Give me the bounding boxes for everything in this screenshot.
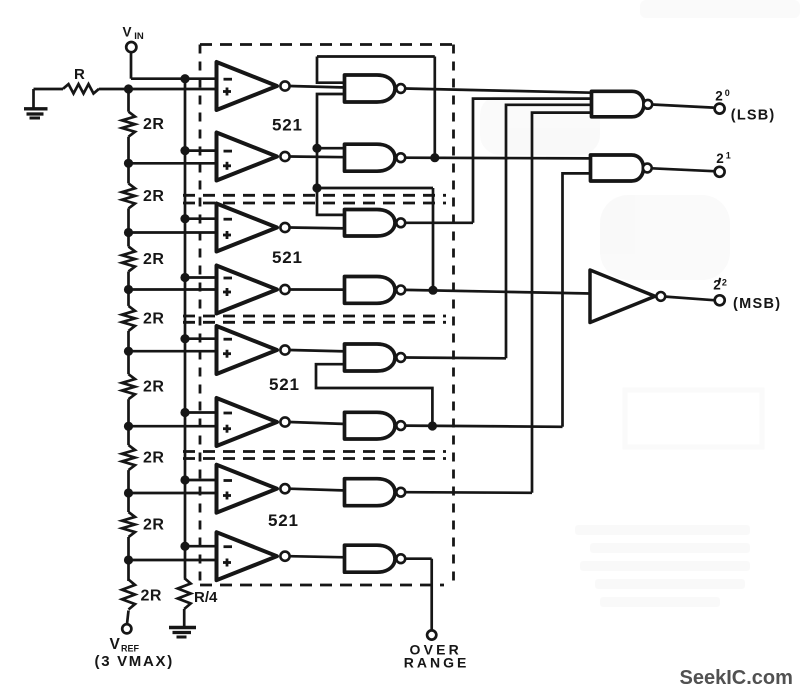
dashed separator 2 upper [183, 315, 446, 318]
wire G6 output right [405, 426, 563, 427]
wire feedback down to G1 input [317, 57, 346, 83]
faint scan artifacts [480, 0, 800, 607]
junction G4 output [428, 286, 437, 295]
ground (R/4) [169, 628, 196, 638]
svg-text:SeekIC.com: SeekIC.com [680, 667, 793, 689]
svg-text:521: 521 [269, 375, 300, 394]
svg-text:(3 VMAX): (3 VMAX) [95, 653, 174, 670]
NAND gate G6 [345, 412, 406, 439]
wire G3 output riser [473, 99, 592, 223]
resistor 2R #4 [122, 306, 135, 331]
svg-text:2R: 2R [143, 251, 164, 268]
svg-text:2: 2 [722, 278, 727, 288]
svg-text:2R: 2R [143, 116, 164, 133]
wire rail to comparator 7 - input [185, 479, 217, 482]
wire comparator U5 output to NAND [290, 350, 346, 351]
junction chain G2 input [312, 144, 321, 153]
wire V_IN down [130, 52, 133, 79]
comparator U1 output bubble [280, 81, 289, 90]
wire tap to comparator 3 + input [129, 231, 218, 234]
terminal V_REF [122, 624, 131, 633]
wire G8 output right [405, 557, 432, 560]
dashed box bottom edge [200, 584, 444, 587]
comparator U4 (521) [217, 266, 278, 314]
wire ladder segment 5b [127, 399, 130, 426]
junction ladder tap 8 [124, 555, 133, 564]
NAND gate G8 [345, 545, 406, 572]
junction ladder tap 2 [124, 159, 133, 168]
resistor R/4 [178, 578, 191, 609]
wire chain horizontal to G4 [317, 187, 433, 190]
wire G2 output feedback up [433, 57, 436, 158]
comparator U7 (521) [217, 465, 278, 513]
ground stub top-left [32, 89, 35, 109]
wire ladder segment 2b [127, 208, 130, 232]
wire G2 output to 2^1 gate [405, 156, 590, 159]
terminal 2^0 (LSB) [715, 104, 725, 114]
svg-text:2R: 2R [141, 588, 162, 605]
comparator U3 (521) [217, 204, 278, 252]
wire 2^0 to terminal [652, 105, 713, 108]
comparator U8 (521) [217, 532, 278, 580]
wire 2^2 to terminal [665, 297, 714, 301]
wire rail to comparator 5 - input [185, 337, 217, 340]
svg-text:521: 521 [272, 116, 303, 135]
wire last 2R to V_REF [127, 611, 129, 625]
wire G1 third input [317, 94, 346, 215]
wire ladder segment 2a [127, 163, 130, 183]
wire rail to comparator 4 - input [185, 276, 217, 279]
wire ladder segment 5a [127, 351, 130, 374]
svg-text:1: 1 [726, 151, 731, 161]
dashed separator 1 lower [183, 202, 446, 205]
wire 2^1 to terminal [652, 168, 714, 171]
wire G6 output riser [563, 173, 592, 426]
wire G4 output to 2^2 buffer [405, 290, 590, 294]
wire tap to comparator 4 + input [129, 288, 218, 291]
comparator U5 (521) [217, 326, 278, 374]
terminal 2^1 [715, 167, 725, 177]
dashed separator 3 lower [183, 457, 446, 460]
wire rail to comparator 3 - input [185, 217, 217, 220]
wire chain down to G4 output [432, 188, 435, 290]
comparator U7 output bubble [280, 484, 289, 493]
wire ladder segment 6b [127, 470, 130, 493]
wire G3 output right [405, 221, 473, 224]
wire ladder segment 1b [127, 137, 130, 164]
comparator U5 output bubble [280, 345, 289, 354]
wire tap to comparator 2 + input [129, 162, 218, 165]
NAND gate 2^0 output [592, 91, 653, 117]
apostrophe artifact above 2^2 [718, 278, 721, 283]
dashed box top edge [200, 43, 454, 46]
comparator U8 output bubble [280, 552, 289, 561]
NAND gate G4 [345, 277, 406, 304]
wire rail to R/4 [183, 546, 187, 578]
svg-text:V: V [123, 25, 132, 40]
wire tap to comparator 6 + input [129, 425, 218, 428]
wire chain stub to G2 input [317, 147, 346, 150]
junction G2 output [430, 153, 439, 162]
NAND gate G7 [345, 479, 406, 506]
junction ladder tap 5 [124, 347, 133, 356]
wire ladder segment 3b [127, 272, 130, 290]
wire G5 output right [405, 356, 506, 359]
junction chain horizontal [312, 183, 321, 192]
node A (ladder top) [124, 84, 133, 93]
terminal OVER RANGE [427, 630, 436, 639]
resistor 2R #7 [122, 512, 135, 537]
wire ladder segment 4a [127, 290, 130, 306]
junction rail row 6 [180, 408, 189, 417]
wire G7 output riser [532, 113, 592, 493]
resistor 2R #5 [122, 374, 135, 399]
wire ladder segment 6a [127, 426, 130, 445]
wire comparator U4 output to NAND [290, 288, 346, 291]
junction G6 output [428, 421, 437, 430]
NAND gate G5 [345, 344, 406, 371]
comparator U1 (521) [217, 62, 278, 110]
comparator U2 (521) [217, 133, 278, 181]
wire ladder segment 3a [127, 233, 130, 247]
svg-text:2R: 2R [143, 310, 164, 327]
junction ladder tap 3 [124, 228, 133, 237]
NAND gate G2 [345, 144, 406, 171]
svg-text:521: 521 [272, 248, 303, 267]
wire tap to comparator 5 + input [129, 350, 218, 353]
resistor R [63, 84, 99, 93]
terminal V_IN [126, 42, 136, 52]
comparator U2 output bubble [280, 152, 289, 161]
wire G5 feedback input [316, 364, 432, 426]
wire tap to comparator 8 + input [129, 559, 218, 562]
wire rail to comparator 2 - input [185, 149, 217, 152]
resistor 2R #1 [122, 112, 135, 137]
ground (input) [24, 109, 48, 118]
resistor 2R #6 [122, 445, 135, 470]
wire comparator U1 output to NAND [290, 86, 346, 88]
NAND gate G1 [345, 75, 406, 102]
svg-text:R: R [74, 66, 85, 83]
svg-text:2R: 2R [143, 517, 164, 534]
wire feedback top horizontal [317, 55, 435, 58]
svg-text:IN: IN [134, 31, 144, 42]
node V_IN rail top [180, 74, 189, 83]
V_IN rail vertical [184, 79, 187, 547]
resistor 2R #8 [122, 580, 135, 610]
svg-text:0: 0 [725, 88, 730, 98]
wire ground to R [34, 88, 64, 91]
svg-text:2R: 2R [143, 379, 164, 396]
resistor 2R #2 [122, 183, 135, 208]
wire ladder to last 2R [127, 560, 130, 581]
wire ladder segment 4b [127, 331, 130, 351]
wire comparator U6 output to NAND [290, 422, 346, 424]
junction rail row 4 [180, 273, 189, 282]
NAND gate 2^1 output [591, 155, 652, 181]
svg-text:(MSB): (MSB) [733, 296, 781, 312]
svg-text:RANGE: RANGE [404, 655, 470, 671]
wire G7 output right [405, 491, 532, 494]
dashed separator 2 lower [183, 321, 446, 324]
svg-text:V: V [110, 636, 121, 653]
wire ladder segment 7b [127, 537, 130, 560]
dashed separator 3 upper [183, 450, 446, 453]
junction rail row 8 [180, 542, 189, 551]
svg-text:REF: REF [121, 644, 140, 654]
resistor 2R #3 [122, 247, 135, 272]
junction ladder tap 6 [124, 422, 133, 431]
wire tap to comparator 7 + input [129, 492, 218, 495]
wire comparator U3 output to NAND [290, 226, 346, 230]
wire G1 output to 2^0 gate [405, 89, 591, 93]
svg-text:R/4: R/4 [194, 589, 218, 606]
wire comparator U7 output to NAND [290, 489, 346, 491]
dashed box left edge [199, 45, 202, 586]
svg-text:2R: 2R [143, 450, 164, 467]
wire rail to comparator 6 - input [185, 411, 217, 414]
junction rail row 5 [180, 334, 189, 343]
comparator U4 output bubble [280, 285, 289, 294]
svg-text:(LSB): (LSB) [731, 108, 776, 124]
svg-text:2: 2 [716, 151, 724, 166]
wire R to node A and comparator 1 + input [99, 88, 217, 91]
wire comparator U2 output to NAND [290, 155, 346, 158]
svg-text:521: 521 [268, 511, 299, 530]
svg-text:2: 2 [715, 88, 723, 103]
NAND gate G3 [345, 210, 406, 237]
terminal 2^2 (MSB) [715, 295, 725, 305]
wire rail to comparator 8 - input [185, 545, 217, 548]
wire G8 output down to over range [430, 559, 433, 631]
wire G5 output riser [506, 105, 592, 358]
junction rail row 2 [180, 146, 189, 155]
wire ladder segment 1a [127, 89, 130, 112]
dashed box right edge [452, 45, 455, 586]
wire comparator U8 output to NAND [290, 556, 346, 557]
junction ladder tap 4 [124, 285, 133, 294]
comparator U6 (521) [217, 398, 278, 446]
wire V_IN to rail and comparator 1 - input [131, 77, 217, 80]
wire ladder segment 7a [127, 493, 130, 512]
svg-text:2R: 2R [143, 188, 164, 205]
dashed separator 1 upper [183, 194, 446, 197]
comparator U6 output bubble [280, 417, 289, 426]
junction rail row 3 [180, 214, 189, 223]
junction ladder tap 7 [124, 488, 133, 497]
wire R/4 to ground [183, 609, 186, 626]
buffer 2^2 (MSB) [590, 270, 665, 323]
comparator U3 output bubble [280, 223, 289, 232]
junction rail row 7 [180, 475, 189, 484]
